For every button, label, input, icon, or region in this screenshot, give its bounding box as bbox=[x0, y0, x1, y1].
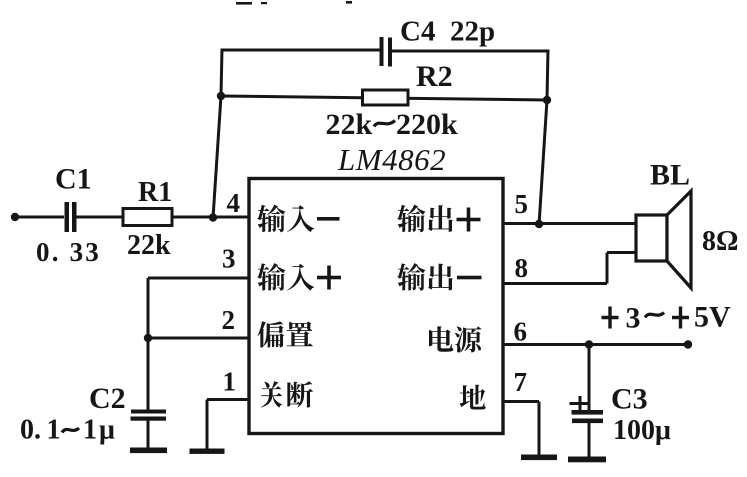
wire pin 5 to speaker bbox=[503, 222, 637, 225]
resistor R1 bbox=[123, 209, 172, 226]
junction left R2/C4 node bbox=[217, 92, 225, 100]
svg-text:R1: R1 bbox=[138, 177, 172, 208]
wire pin 8 to speaker bbox=[503, 253, 637, 284]
svg-text:6: 6 bbox=[514, 317, 528, 347]
junction pin2/pin3/C2 node bbox=[144, 334, 152, 342]
svg-text:1μ: 1μ bbox=[83, 415, 117, 446]
svg-text:8: 8 bbox=[515, 253, 529, 283]
svg-text:5V: 5V bbox=[694, 301, 731, 334]
wire R2 branch bbox=[221, 96, 547, 100]
capacitor C1 bbox=[65, 202, 77, 232]
svg-text:100μ: 100μ bbox=[613, 415, 671, 446]
wire R1 to pin 4 bbox=[172, 216, 249, 219]
svg-text:BL: BL bbox=[650, 159, 690, 192]
svg-text:2: 2 bbox=[222, 305, 236, 335]
junction pin4 node bbox=[209, 213, 217, 221]
capacitor C4 bbox=[380, 37, 393, 67]
wire pin 1 to ground bbox=[207, 400, 249, 451]
label R2 value 22k~220k bbox=[326, 108, 459, 141]
label C2 value 0.1~1μ bbox=[20, 415, 117, 446]
scan speck top 2 bbox=[261, 2, 267, 4]
label pin3 输入+ (IN+) bbox=[257, 263, 341, 291]
wire pin 2 to C2 node bbox=[148, 337, 249, 340]
label pin8 输出− (OUT−) bbox=[397, 263, 481, 291]
svg-text:C1: C1 bbox=[55, 163, 92, 196]
svg-text:0.: 0. bbox=[20, 415, 41, 446]
wire C1 to R1 bbox=[77, 216, 124, 219]
svg-text:1: 1 bbox=[223, 367, 237, 397]
wire pin 6 power rail bbox=[503, 343, 688, 346]
ground for C2 bbox=[130, 448, 167, 454]
speaker BL bbox=[636, 191, 691, 288]
wire C2 to ground bbox=[147, 420, 150, 449]
wire top-right vertical (C4/R2 to pin5 node) bbox=[539, 50, 548, 226]
label pin6 电源 (power) bbox=[429, 326, 481, 352]
junction pin5 node bbox=[535, 220, 543, 228]
svg-text:C3: C3 bbox=[611, 383, 648, 416]
svg-text:220k: 220k bbox=[396, 108, 458, 141]
node input terminal bbox=[11, 213, 19, 221]
svg-text:0. 33: 0. 33 bbox=[36, 237, 101, 267]
svg-text:R2: R2 bbox=[416, 60, 453, 93]
svg-text:C2: C2 bbox=[89, 382, 126, 415]
svg-text:8Ω: 8Ω bbox=[702, 226, 738, 257]
svg-text:22k: 22k bbox=[127, 230, 171, 261]
label pin7 地 (ground) bbox=[460, 385, 486, 410]
wire input to C1 bbox=[15, 216, 64, 219]
capacitor C3 polarity plus bbox=[570, 396, 588, 411]
junction right R2/C4 node bbox=[543, 96, 551, 104]
capacitor C3 bbox=[572, 410, 604, 423]
svg-text:4: 4 bbox=[227, 188, 241, 218]
svg-text:3: 3 bbox=[222, 244, 236, 274]
wire C3 to ground bbox=[588, 421, 591, 458]
svg-text:22k: 22k bbox=[326, 108, 373, 141]
label pin5 输出+ (OUT+) bbox=[397, 205, 480, 233]
wire top-left vertical (C4/R2 to pin4 node) bbox=[213, 49, 222, 219]
svg-text:1: 1 bbox=[47, 415, 61, 446]
wire top C4 branch left segment bbox=[222, 49, 380, 52]
resistor R2 bbox=[363, 90, 409, 105]
label pin1 关断 (shutdown) bbox=[261, 381, 313, 407]
ground for pin 7 bbox=[521, 455, 557, 461]
node power terminal bbox=[684, 340, 692, 348]
op-amp U1 LM4862 IC body bbox=[249, 179, 503, 434]
svg-text:5: 5 bbox=[515, 189, 529, 219]
wire node to C2 bbox=[147, 338, 150, 410]
wire pin 7 to ground bbox=[503, 402, 539, 457]
wire pin 3 to C2 node bbox=[148, 278, 249, 338]
junction C3 tap node bbox=[585, 340, 593, 348]
label pin2 偏置 (bias) bbox=[258, 321, 313, 347]
wire node to C3 bbox=[588, 345, 591, 411]
wire top C4 branch right segment bbox=[390, 50, 549, 53]
ground for C3 bbox=[568, 457, 606, 463]
svg-text:3: 3 bbox=[626, 302, 641, 335]
svg-text:LM4862: LM4862 bbox=[337, 142, 446, 177]
label pin4 输入− (IN−) bbox=[257, 205, 339, 233]
scan speck top 1 bbox=[236, 2, 252, 5]
label power +3~+5V bbox=[602, 301, 732, 335]
ground for pin 1 bbox=[190, 449, 225, 454]
svg-text:7: 7 bbox=[514, 367, 528, 397]
svg-text:C4 22p: C4 22p bbox=[400, 16, 495, 48]
capacitor C2 bbox=[131, 410, 167, 421]
scan speck top 3 bbox=[346, 1, 352, 4]
